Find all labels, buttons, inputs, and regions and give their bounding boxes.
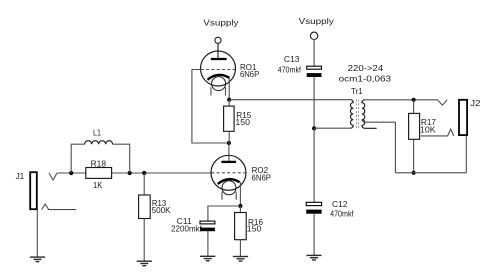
ground (C11) <box>200 256 215 261</box>
wire L1 branch left riser <box>71 144 85 173</box>
svg-text:500K: 500K <box>152 205 171 215</box>
wire C11 to ground <box>207 231 209 256</box>
node junction R13 top <box>142 171 146 175</box>
wire R15 top lead <box>228 100 230 106</box>
wire secondary tap riser <box>394 122 396 173</box>
wire R13 to ground <box>143 219 145 262</box>
wire primary bottom <box>314 127 350 129</box>
svg-text:470mkf: 470mkf <box>278 65 302 75</box>
wire RO2 anode lead <box>228 143 230 162</box>
ground (J1) <box>30 257 45 262</box>
transformer Tr1 secondary winding <box>362 100 377 129</box>
capacitor C13 plus plate <box>307 66 322 69</box>
svg-text:J2: J2 <box>470 98 481 108</box>
wire cathode to C11 <box>208 206 241 221</box>
connector J1 <box>30 172 76 209</box>
wire R13 branch <box>143 173 145 195</box>
wire C12 to ground <box>313 214 315 256</box>
anode plate RO1 <box>211 58 227 60</box>
svg-text:C13: C13 <box>284 54 300 64</box>
wire R16 to ground <box>239 240 241 257</box>
inductor L1 <box>85 141 113 144</box>
wire J2 sleeve riser <box>465 136 467 173</box>
wire R15 bottom lead <box>228 131 230 143</box>
wire RO1 cathode lead <box>228 78 230 100</box>
heater RO1 <box>212 77 226 91</box>
node RO2 anode junction <box>227 141 231 145</box>
ground (R13) <box>137 261 152 266</box>
triode RO1 envelope <box>201 51 236 86</box>
wire anode top cap RO1 <box>217 44 219 59</box>
triode RO2 envelope <box>211 155 246 190</box>
transformer Tr1 primary winding <box>350 100 353 129</box>
svg-text:L1: L1 <box>93 128 101 138</box>
capacitor C12 plus plate <box>306 202 321 205</box>
wire L1 branch right riser <box>113 144 130 173</box>
terminal Vsupply (C13) <box>310 32 317 39</box>
wire R17 top lead <box>413 100 415 114</box>
heater stub RO1 right <box>225 87 227 95</box>
heater stub RO2 left <box>221 192 223 200</box>
wire J1 sleeve to ground <box>36 210 38 257</box>
capacitor C12 minus plate <box>306 210 321 214</box>
node bottom net junction <box>412 171 416 175</box>
svg-text:1K: 1K <box>93 180 103 190</box>
resistor R16 <box>235 213 247 240</box>
node junction L1 left <box>69 171 73 175</box>
transformer Tr1 secondary tap <box>362 119 396 122</box>
wire C12 top lead <box>313 128 315 202</box>
svg-text:C12: C12 <box>332 199 348 209</box>
wire RO2 cathode lead <box>239 182 241 206</box>
capacitor C11 plus plate <box>200 221 215 224</box>
heater stub RO2 right <box>235 192 237 200</box>
svg-text:Vsupply: Vsupply <box>203 18 239 28</box>
capacitor C13 minus plate <box>307 73 322 77</box>
wire input net (J1 tip to RO2 grid) <box>57 172 211 174</box>
cathode RO2 <box>218 179 240 184</box>
wire RO1 grid net (to RO2 anode) <box>192 70 229 144</box>
capacitor C11 minus plate <box>200 228 215 232</box>
svg-text:470mkf: 470mkf <box>330 209 354 219</box>
svg-text:10K: 10K <box>420 125 436 135</box>
node R17 top junction <box>412 98 416 102</box>
terminal Vsupply (RO1 anode) <box>215 37 221 43</box>
heater RO2 <box>222 181 236 195</box>
connector J2 <box>421 100 467 136</box>
wire bottom net <box>395 172 466 174</box>
node primary bottom junction <box>312 126 316 130</box>
wire RO1 cathode to Tr1 primary top <box>229 99 350 101</box>
node junction L1 right <box>128 171 132 175</box>
wire R17 bottom lead <box>413 139 415 173</box>
ground (R16) <box>233 257 248 262</box>
svg-text:6N6P: 6N6P <box>252 173 272 183</box>
wire R16 top lead <box>239 206 241 213</box>
grid RO2 (dashed) <box>211 172 246 174</box>
wire Vsupply to C13 <box>313 39 315 66</box>
wire secondary top to J2 <box>365 99 438 101</box>
svg-text:Tr1: Tr1 <box>351 86 363 96</box>
anode plate RO2 <box>221 161 236 163</box>
ground (C12) <box>306 255 321 260</box>
node RO2 cathode junction <box>238 204 242 208</box>
svg-text:ocm1-0,063: ocm1-0,063 <box>339 73 392 83</box>
svg-text:150: 150 <box>247 223 262 233</box>
svg-text:220->24: 220->24 <box>348 63 384 73</box>
cathode RO1 <box>208 75 230 80</box>
svg-text:R18: R18 <box>91 158 107 168</box>
resistor R18 <box>86 168 112 179</box>
svg-text:J1: J1 <box>16 171 25 181</box>
resistor R15 <box>224 106 235 131</box>
heater stub RO1 left <box>210 87 212 95</box>
resistor R17 <box>409 113 420 139</box>
svg-text:2200mkf: 2200mkf <box>171 223 202 233</box>
svg-text:Vsupply: Vsupply <box>299 16 335 26</box>
svg-text:150: 150 <box>235 117 250 127</box>
resistor R13 <box>139 195 151 219</box>
node RO1 cathode junction <box>227 98 231 102</box>
wire C13 to primary bottom node <box>313 77 315 128</box>
grid RO1 (dashed) <box>201 69 236 71</box>
svg-text:6N6P: 6N6P <box>240 69 259 79</box>
transformer Tr1 core <box>357 100 359 129</box>
